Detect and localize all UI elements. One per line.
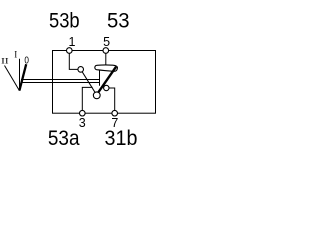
lever arm (position 0) [19, 64, 26, 90]
terminal 7 circle [112, 110, 118, 116]
terminal 1 circle [67, 48, 73, 54]
moving lever (thick) from bridge to pivot [98, 67, 116, 93]
svg-text:5: 5 [103, 35, 110, 49]
wire pin3 riser and stub [82, 87, 92, 111]
pusher rod from bridge to pivot [99, 70, 101, 86]
svg-text:3: 3 [79, 116, 86, 130]
linkage double line lower [21, 82, 99, 84]
wire pin5 down to bridge [105, 53, 107, 66]
svg-text:53: 53 [107, 9, 130, 33]
pivot P circle [93, 92, 100, 99]
svg-text:0: 0 [24, 54, 29, 66]
svg-text:53b: 53b [49, 9, 80, 33]
wire pin1 down to contact C [69, 53, 78, 69]
wire contact arm C to pivot P [82, 72, 95, 93]
bridge contact capsule [95, 65, 118, 71]
terminal 3 circle [80, 110, 86, 116]
lever position mark II [5, 66, 20, 91]
svg-text:II: II [1, 56, 9, 66]
terminal 5 circle [103, 48, 109, 54]
contact C circle [78, 67, 84, 73]
svg-text:31b: 31b [105, 126, 138, 150]
svg-text:I: I [14, 49, 17, 59]
svg-text:7: 7 [111, 116, 118, 130]
lever position mark I [19, 59, 21, 91]
svg-text:53a: 53a [48, 126, 80, 150]
linkage double line upper [21, 79, 100, 81]
wire contact B to pin7 [109, 88, 115, 111]
svg-text:1: 1 [69, 35, 76, 49]
contact B circle [104, 85, 109, 90]
switch body box [53, 51, 156, 114]
